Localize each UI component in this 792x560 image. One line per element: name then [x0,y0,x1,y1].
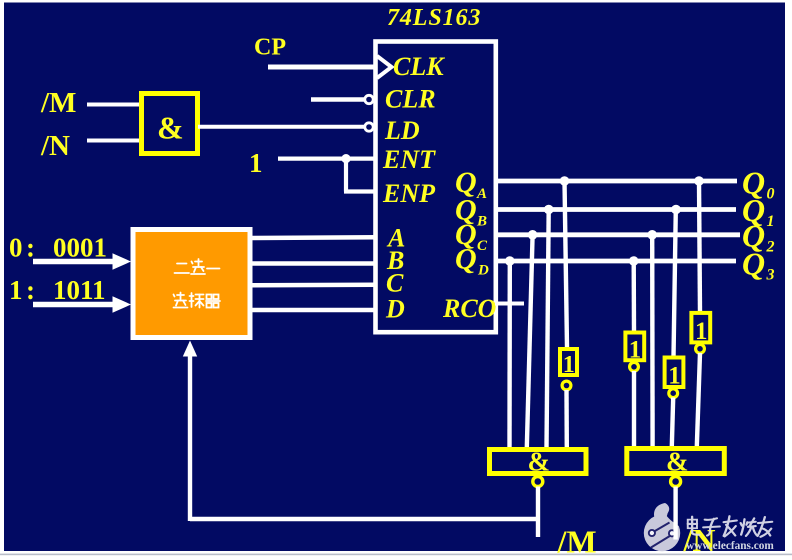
svg-text:&: & [666,447,689,477]
svg-text:CLK: CLK [393,52,445,81]
junction dot QB left tap [544,205,554,215]
svg-text:/N: /N [40,130,70,162]
svg-text:A: A [476,186,487,202]
wire INV2 to gate G3 [632,371,636,447]
label Q2 [742,218,775,256]
wire selector to pin A [250,235,376,240]
junction dot QC left tap [528,230,538,240]
wire /N to AND gate G1 [87,139,140,143]
junction dot QD right tap [629,256,639,266]
svg-text:LD: LD [384,116,420,145]
svg-text:ENP: ENP [382,179,436,208]
wire G2 output down stub [536,487,540,538]
svg-text:&: & [528,447,551,477]
junction dot on ENT wire [341,154,350,163]
inverter INV1 bubble [562,381,571,390]
svg-text:ENT: ENT [382,145,436,174]
svg-text:2: 2 [766,239,775,256]
svg-text:Q: Q [742,246,765,282]
wire QA output bus [495,179,737,184]
wire QD down to gate G2 [507,261,512,448]
watermark brand text [688,516,772,537]
wire QB output bus [495,207,736,212]
74LS163 counter U1 body [376,42,496,333]
svg-text:CP: CP [254,35,286,61]
junction dot QA left tap [560,176,570,186]
wire 1 to ENT [278,157,376,161]
svg-text:www.elecfans.com: www.elecfans.com [686,540,774,552]
pin label QD [455,243,489,279]
wire QD down to inverter INV2 [632,261,637,332]
two-to-one selector M1 (orange box) [133,230,250,338]
label Q0 [742,165,775,203]
arrow wire 0001 into selector [33,253,131,269]
wire QB down to inverter INV3 [674,210,676,358]
svg-text:1: 1 [695,318,708,345]
wire QB down to gate G2 [547,210,549,449]
svg-text:/M: /M [557,524,597,560]
svg-text:1: 1 [249,148,263,178]
wire selector to pin D [250,308,376,313]
wire QC output bus [495,232,740,237]
svg-text:1: 1 [563,352,575,378]
junction dot QC right tap [647,230,657,240]
svg-text:Q: Q [455,243,477,276]
arrowhead feedback into selector [183,341,197,357]
wire INV4 to gate G3 [697,353,700,447]
svg-text:1: 1 [767,213,775,230]
svg-text:&: & [157,110,184,146]
svg-text:1: 1 [629,337,642,364]
inverter INV1 box [560,349,577,378]
wire feedback horizontal to selector [190,517,540,521]
pin label QA [455,166,487,202]
inverter INV3 bubble [669,389,678,398]
bottom margin shadow line [0,554,792,556]
inverter INV2 box [625,333,644,364]
svg-text::: : [26,275,35,305]
pin label QC [455,218,488,254]
label Q3 [742,246,775,284]
wire branch down from ENT junction [344,159,348,192]
wire QC down to gate G2 [527,235,533,448]
svg-text:RCO: RCO [442,294,497,323]
wire /M to AND gate G1 [87,103,140,107]
wire QD output bus [495,259,736,264]
wire selector to pin C [250,283,376,288]
svg-text::: : [26,233,35,263]
inverter INV3 box [665,358,684,390]
label Q1 [742,192,775,230]
wire feedback vertical up [188,354,192,521]
wire INV1 to gate G2 [564,390,569,448]
svg-text:CLR: CLR [385,85,436,114]
inverter bubble on CLR [365,95,373,103]
svg-text:C: C [386,269,404,298]
junction dot QB right tap [671,205,681,215]
inverter INV2 bubble [630,362,639,371]
svg-text:1011: 1011 [53,275,106,305]
wire G1 output to LD [198,125,364,129]
svg-text:0001: 0001 [53,233,107,263]
svg-text:1: 1 [668,363,681,390]
selector caption line 2 (xuan ze qi) [174,293,221,308]
svg-text:C: C [477,238,488,254]
svg-text:0: 0 [767,186,775,203]
junction dot QD left tap [505,256,515,266]
svg-text:/M: /M [40,87,76,119]
inverter bubble on G2 output [533,477,543,487]
inverter bubble on G3 output [671,477,681,487]
arrow wire 1011 into selector [33,296,131,312]
AND gate G1 (&) [142,94,198,154]
wire RCO stub [495,302,524,306]
AND gate G3 (&) [627,447,725,477]
wire QA down to inverter INV1 [565,181,568,347]
label 1:1011 [9,275,106,305]
pin label QB [455,194,487,230]
wire branch into ENP [344,189,376,193]
svg-text:1: 1 [9,275,23,305]
svg-text:0: 0 [9,233,23,263]
svg-text:D: D [385,295,405,324]
svg-text:74LS163: 74LS163 [387,5,481,31]
inverter INV4 bubble [696,344,705,353]
wire selector to pin B [250,261,376,266]
wire INV3 to gate G3 [672,398,673,448]
inverter bubble on LD [365,123,373,131]
inverter INV4 box [691,313,710,345]
wire CP to CLK [268,65,376,70]
wire QC down to gate G3 [650,235,655,447]
wire CLR input stub [311,97,364,101]
wire G3 output down stub [673,487,677,540]
junction dot QA right tap [694,176,704,186]
clock edge triangle on CLK pin [377,56,392,78]
svg-text:3: 3 [766,267,775,284]
selector caption line 1 (er xuan yi) [175,259,220,274]
AND gate G2 (&) [490,447,587,477]
watermark logo drop [644,503,680,551]
svg-text:B: B [476,214,487,230]
svg-text:D: D [477,263,489,279]
label 0:0001 [9,233,107,263]
wire QA down to inverter INV4 [699,181,700,313]
